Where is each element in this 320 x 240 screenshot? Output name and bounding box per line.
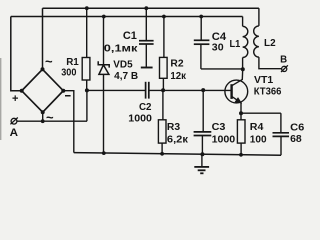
- capacitor C2: [146, 82, 149, 99]
- svg-text:VT1: VT1: [254, 74, 273, 86]
- label minus: [65, 95, 71, 97]
- scan artifact left edge: [0, 58, 1, 140]
- wire terminal A to R1 bottom: [17, 120, 87, 122]
- capacitor C6: [273, 113, 290, 155]
- inductor L2: [254, 8, 282, 68]
- svg-text:300: 300: [61, 66, 76, 78]
- inductor L1: [243, 17, 248, 70]
- svg-text:~: ~: [45, 54, 53, 69]
- svg-text:C2: C2: [139, 101, 152, 113]
- node R1 bottom: [85, 88, 89, 92]
- svg-text:+: +: [12, 93, 18, 105]
- node R1 top rail: [85, 6, 89, 10]
- node R4 bottom rail: [239, 153, 243, 157]
- node R2 second rail: [162, 15, 166, 19]
- bridge rectifier: [22, 69, 64, 112]
- svg-text:30: 30: [212, 42, 224, 54]
- node bridge bottom on A wire: [41, 119, 45, 123]
- wire bridge top to top rail: [42, 8, 44, 69]
- svg-text:0,1мк: 0,1мк: [104, 42, 138, 54]
- transistor VT1: [225, 69, 248, 113]
- resistor R1: [82, 8, 90, 121]
- svg-text:VD5: VD5: [113, 58, 132, 70]
- wire second rail (plus): [11, 16, 243, 18]
- svg-text:КТ366: КТ366: [254, 87, 282, 98]
- svg-text:4,7 В: 4,7 В: [114, 71, 138, 82]
- svg-text:C3: C3: [212, 121, 226, 133]
- svg-text:1000: 1000: [212, 133, 236, 145]
- svg-text:1000: 1000: [128, 113, 152, 125]
- svg-text:В: В: [280, 53, 287, 65]
- capacitor C4: [194, 17, 243, 69]
- svg-text:L1: L1: [230, 38, 241, 50]
- terminal A: [10, 118, 17, 125]
- svg-text:6,2к: 6,2к: [167, 133, 189, 145]
- node C3 top: [201, 88, 205, 92]
- svg-text:C6: C6: [290, 121, 304, 133]
- capacitor C1: [139, 8, 154, 67]
- wire emitter node to C6: [241, 112, 281, 114]
- chassis symbol under C1: [141, 67, 153, 69]
- node emitter junction: [239, 111, 243, 115]
- resistor R2: [160, 17, 168, 91]
- node C4 second rail: [199, 15, 203, 19]
- zener diode VD5: [98, 17, 109, 154]
- capacitor C3: [194, 90, 212, 154]
- resistor R4: [237, 113, 245, 155]
- node bridge top: [41, 67, 45, 71]
- wire top rail: [43, 7, 259, 9]
- node C1 top rail: [144, 6, 148, 10]
- node C3 bottom rail: [200, 152, 204, 156]
- svg-text:68: 68: [290, 133, 302, 145]
- wire second rail to bridge left: [11, 17, 22, 91]
- svg-text:~: ~: [46, 110, 54, 125]
- svg-text:L2: L2: [264, 37, 276, 49]
- node bridge right: [61, 89, 65, 93]
- svg-text:C1: C1: [123, 30, 137, 42]
- node R2 R3 junction: [161, 88, 165, 92]
- terminal B: [281, 65, 288, 72]
- svg-text:R3: R3: [167, 121, 180, 133]
- wire bridge bottom to A wire: [42, 112, 44, 121]
- wire minus: bridge right to bottom rail: [63, 91, 74, 153]
- svg-text:R2: R2: [170, 58, 183, 70]
- node R3 bottom rail: [160, 152, 164, 156]
- svg-text:12к: 12к: [170, 70, 186, 82]
- wire main horizontal to base: [87, 89, 232, 91]
- svg-text:100: 100: [250, 133, 267, 145]
- node collector L1 C4: [241, 67, 245, 71]
- node VD5 second rail: [102, 15, 106, 19]
- node bridge left: [20, 89, 24, 93]
- wire bottom rail: [74, 153, 281, 156]
- node VD5 bottom rail: [102, 151, 106, 155]
- resistor R3: [158, 90, 166, 154]
- node bridge bottom: [41, 110, 45, 114]
- svg-text:R4: R4: [250, 121, 264, 133]
- ground symbol: [194, 154, 209, 173]
- svg-text:A: A: [10, 127, 18, 139]
